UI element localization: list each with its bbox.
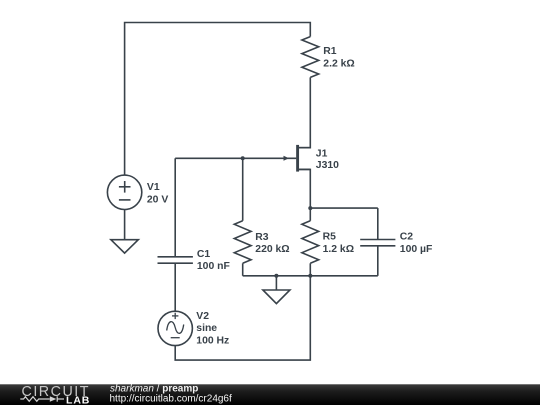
svg-text:220 kΩ: 220 kΩ	[255, 244, 289, 255]
svg-text:C1: C1	[197, 249, 211, 260]
svg-text:LAB: LAB	[66, 394, 90, 405]
svg-text:1.2 kΩ: 1.2 kΩ	[323, 244, 354, 255]
svg-text:20 V: 20 V	[147, 194, 168, 205]
svg-text:R1: R1	[323, 46, 337, 57]
svg-text:100 µF: 100 µF	[400, 244, 433, 255]
svg-text:R3: R3	[255, 232, 269, 243]
svg-text:J1: J1	[316, 149, 328, 160]
svg-text:100 Hz: 100 Hz	[196, 336, 229, 347]
svg-text:J310: J310	[316, 160, 339, 171]
svg-text:R5: R5	[323, 232, 337, 243]
svg-text:http://circuitlab.com/cr24g6f: http://circuitlab.com/cr24g6f	[110, 394, 232, 405]
svg-text:V1: V1	[147, 182, 160, 193]
svg-text:V2: V2	[196, 311, 209, 322]
svg-text:C2: C2	[400, 232, 414, 243]
svg-text:sine: sine	[196, 323, 217, 334]
svg-text:2.2 kΩ: 2.2 kΩ	[323, 59, 354, 70]
svg-text:100 nF: 100 nF	[197, 261, 230, 272]
